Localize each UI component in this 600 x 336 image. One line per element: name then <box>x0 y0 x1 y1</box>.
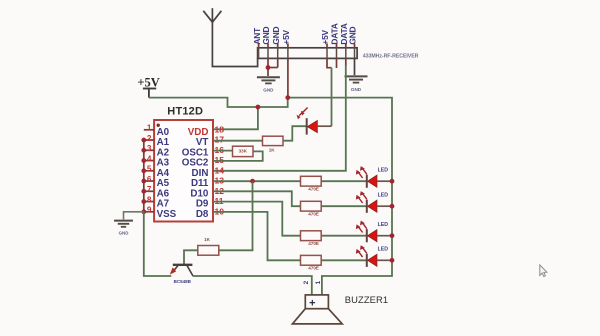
junction dot pin 9 <box>141 209 146 214</box>
svg-text:433MHz-RF-RECEIVER: 433MHz-RF-RECEIVER <box>363 54 419 60</box>
wire D11 pin 13 to resistor row 1 <box>213 180 301 182</box>
wire LED anode to rail row 2 <box>377 205 392 207</box>
wire LED anode to rail row 3 <box>377 235 392 237</box>
LED D1 (VT indicator) <box>306 118 308 134</box>
junction dot pin 8 <box>141 199 146 204</box>
pin stub 4 A3 <box>144 160 154 162</box>
svg-text:470E: 470E <box>308 211 319 216</box>
svg-text:GND: GND <box>263 88 274 93</box>
receiver pin DATA through-line <box>336 48 338 59</box>
resistor R6 470E row 4 <box>301 255 322 265</box>
svg-text:17: 17 <box>215 135 225 145</box>
wire resistor to LED row 1 <box>321 180 366 182</box>
wire resistor to LED row 4 <box>321 259 366 261</box>
wire LED anode to rail row 1 <box>377 180 392 182</box>
junction dot pin 2 <box>141 138 146 143</box>
receiver pin DATA through-line <box>345 48 347 59</box>
svg-text:470E: 470E <box>308 266 319 271</box>
svg-text:GND: GND <box>119 231 129 236</box>
antenna <box>203 8 221 22</box>
pin stub 3 A2 <box>144 149 154 151</box>
pin stub 9 VSS <box>144 211 154 213</box>
svg-text:BUZZER1: BUZZER1 <box>345 294 388 305</box>
wire resistor to LED row 3 <box>321 235 366 237</box>
RF receiver module U2 body <box>258 48 358 59</box>
pin stub 8 A7 <box>144 201 154 203</box>
wire address bus ground (pins 2-9 tied) <box>143 140 145 212</box>
mouse cursor <box>540 265 547 277</box>
wire VSS down to transistor emitter <box>144 212 172 276</box>
junction dot D11 branch <box>250 179 255 184</box>
svg-text:+5V: +5V <box>281 29 291 44</box>
wire base resistor to transistor base <box>184 250 198 264</box>
LED D5 row 4 <box>366 254 368 267</box>
wire 33K to OSC2 pin 15 <box>213 151 263 161</box>
wire VDD branch from rail <box>213 107 258 129</box>
svg-text:33K: 33K <box>239 149 248 154</box>
svg-text:3: 3 <box>147 144 152 153</box>
junction dot pin 6 <box>141 179 146 184</box>
svg-text:8: 8 <box>147 195 152 204</box>
pin stub 7 A6 <box>144 190 154 192</box>
junction dot pin 5 <box>141 168 146 173</box>
resistor R7 1K transistor base <box>198 246 219 256</box>
wire collector to buzzer pin 2 <box>193 276 312 295</box>
svg-text:HT12D: HT12D <box>167 106 203 118</box>
ground symbol under receiver left GND <box>257 76 280 78</box>
pin stub 5 A4 <box>144 170 154 172</box>
wire receiver right +5V pin jog <box>327 58 332 67</box>
wire D9 pin 11 to resistor row 3 <box>213 202 301 236</box>
svg-text:9: 9 <box>147 206 152 215</box>
wire OSC1 pin 16 to 33K <box>213 150 233 152</box>
junction dot receiver GND <box>266 65 271 70</box>
receiver pin DATA stub <box>336 43 338 47</box>
+5V supply symbol <box>137 75 159 97</box>
wire D10 pin 12 to resistor row 2 <box>213 191 301 206</box>
wire antenna to receiver ANT <box>212 22 257 67</box>
svg-text:LED: LED <box>378 167 389 173</box>
junction dot pin 4 <box>141 158 146 163</box>
receiver pin GND through-line <box>277 48 279 59</box>
svg-text:LED: LED <box>378 192 389 198</box>
svg-text:D8: D8 <box>196 209 209 220</box>
svg-text:18: 18 <box>215 124 225 134</box>
wire +5V rail to receiver and LEDs <box>149 98 392 295</box>
decoder IC U1 HT12D body <box>154 120 213 222</box>
junction dot rail row 3 <box>390 233 395 238</box>
svg-text:14: 14 <box>215 165 225 175</box>
svg-text:6: 6 <box>147 175 152 184</box>
svg-text:VSS: VSS <box>157 209 177 220</box>
wire VSS to ground symbol <box>124 212 144 220</box>
svg-text:GND: GND <box>261 26 271 44</box>
junction dot pin 3 <box>141 148 146 153</box>
junction dot VDD branch <box>256 105 261 110</box>
wire receiver +5V pin down to rail <box>287 58 289 97</box>
wire LED anode to rail row 4 <box>377 259 392 261</box>
svg-text:LED: LED <box>378 222 389 228</box>
LED D1 emission arrows <box>297 108 308 120</box>
wire VT pin 17 to resistor <box>213 140 263 142</box>
wire D8 pin 10 to resistor row 4 <box>213 212 301 260</box>
LED D2 emission arrows <box>362 167 367 174</box>
svg-text:1K: 1K <box>204 237 211 242</box>
resistor R3 470E row 1 <box>301 176 322 186</box>
pin stub 1 A0 <box>144 129 154 131</box>
LED D3 row 2 <box>366 200 368 213</box>
LED D4 row 3 <box>366 229 368 242</box>
junction dot rail row 1 <box>390 179 395 184</box>
receiver pin +5V through-line <box>326 48 328 59</box>
junction dot pin 7 <box>141 189 146 194</box>
receiver pin ANT through-line <box>258 48 260 59</box>
junction dot rail row 4 <box>390 258 395 263</box>
svg-text:LED: LED <box>378 247 389 253</box>
receiver pin GND stub <box>267 43 269 47</box>
transistor Q1 BC548B <box>170 265 193 276</box>
svg-text:2: 2 <box>147 134 152 143</box>
LED D2 row 1 <box>366 175 368 188</box>
wire resistor to LED row 2 <box>321 205 366 207</box>
svg-text:1K: 1K <box>269 147 276 152</box>
receiver right GND pin wire <box>354 58 356 75</box>
buzzer BUZZER1 body <box>292 295 342 324</box>
receiver pin DATA stub <box>345 43 347 47</box>
resistor R5 470E row 3 <box>301 231 322 241</box>
receiver pin GND stub <box>277 43 279 47</box>
resistor R4 470E row 2 <box>301 201 322 211</box>
svg-text:GND: GND <box>351 87 362 92</box>
junction dot +5V rail at receiver <box>285 95 290 100</box>
svg-text:7: 7 <box>147 185 152 194</box>
receiver pin GND through-line <box>354 48 356 59</box>
junction dot rail row 2 <box>390 204 395 209</box>
receiver pin GND through-line <box>267 48 269 59</box>
ground symbol at IC <box>114 220 133 222</box>
pin 1 marker dot <box>157 124 160 127</box>
wire +5V jog down to VT LED cathode (crosses rail) <box>331 68 333 127</box>
pin stub 2 A1 <box>144 139 154 141</box>
resistor R2 1K (VT LED) <box>263 136 284 145</box>
svg-text:GND: GND <box>348 26 358 44</box>
svg-text:+: + <box>309 297 315 309</box>
LED D5 emission arrows <box>362 246 367 253</box>
svg-text:4: 4 <box>147 154 152 163</box>
receiver DATA pin 1 stub <box>336 58 338 68</box>
receiver pin +5V stub <box>287 43 289 47</box>
svg-text:2: 2 <box>303 280 310 284</box>
svg-text:5: 5 <box>147 165 152 174</box>
svg-text:1: 1 <box>147 124 152 133</box>
receiver GND pins drop wires <box>268 58 278 76</box>
svg-text:+5V: +5V <box>137 75 159 89</box>
svg-text:1: 1 <box>315 280 322 284</box>
svg-text:+5V: +5V <box>320 29 330 44</box>
resistor R1 33K oscillator <box>233 146 254 156</box>
receiver pin +5V through-line <box>287 48 289 59</box>
LED D4 emission arrows <box>362 222 367 229</box>
receiver pin GND stub <box>354 43 356 47</box>
receiver pin +5V stub <box>326 43 328 47</box>
svg-text:470E: 470E <box>308 186 319 191</box>
LED D3 emission arrows <box>362 192 367 199</box>
pin stub 6 A5 <box>144 180 154 182</box>
wire D11 branch down to base resistor <box>219 181 253 250</box>
wire receiver DATA pin 2 down to DIN <box>345 58 347 66</box>
wire VT LED anode to +5V line <box>317 125 331 127</box>
ground symbol under receiver right GND <box>345 75 368 77</box>
svg-text:470E: 470E <box>308 241 319 246</box>
svg-text:GND: GND <box>271 26 281 44</box>
svg-text:BC548B: BC548B <box>174 279 192 284</box>
receiver pin ANT stub <box>258 43 260 47</box>
wire resistor to VT LED anode <box>283 126 307 141</box>
